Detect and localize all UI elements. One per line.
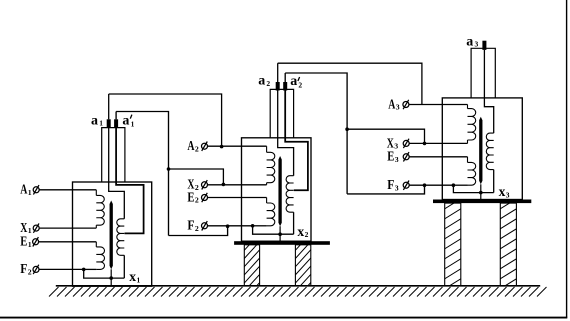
svg-text:x: x <box>129 269 136 284</box>
conductor a1 to HV winding <box>109 128 125 219</box>
bushing tube T1 <box>102 128 125 182</box>
svg-text:1: 1 <box>28 188 32 197</box>
primary winding T2 <box>266 146 268 152</box>
svg-text:F: F <box>187 218 194 233</box>
wire a1p to F2 node <box>169 226 228 236</box>
wire E3 to excitation T3 <box>409 156 467 158</box>
terminal X1 <box>33 225 39 231</box>
junction F2-node T2 <box>251 224 255 228</box>
wire F2 to node <box>39 268 83 270</box>
wire X2 to primary T2 <box>208 184 267 186</box>
svg-text:2: 2 <box>28 267 32 276</box>
wire F3 to node T3 <box>409 184 453 186</box>
junction x1 <box>109 276 113 280</box>
terminal F2 (unit2) <box>202 223 208 229</box>
wire HV bottom to x1 bus <box>123 255 125 278</box>
transformer T1 tank <box>73 182 152 286</box>
HV winding T2 <box>286 176 293 213</box>
junction X2 feed <box>222 183 226 187</box>
junction x2 <box>278 232 282 236</box>
wire A2 to primary T2 <box>208 145 267 147</box>
svg-text:x: x <box>297 224 304 239</box>
svg-text:2: 2 <box>298 80 302 89</box>
svg-text:a: a <box>91 113 98 128</box>
svg-text:3: 3 <box>475 40 479 49</box>
svg-text:a: a <box>122 113 129 128</box>
wire a2p to F3 node <box>347 185 424 194</box>
svg-text:a: a <box>258 74 265 89</box>
svg-text:2: 2 <box>305 230 309 239</box>
bushing tube T2 <box>270 89 293 137</box>
wire a1p right run <box>116 112 168 236</box>
conductor a1p to tap <box>116 128 144 234</box>
terminal E2 <box>202 195 208 201</box>
svg-text:F: F <box>20 261 27 276</box>
wire branch to X2 <box>169 169 224 185</box>
svg-text:3: 3 <box>395 183 399 192</box>
svg-text:2: 2 <box>195 196 199 205</box>
svg-text:E: E <box>387 149 394 164</box>
wire F2 to node T2 <box>208 225 253 227</box>
svg-text:a: a <box>466 35 473 50</box>
svg-text:1: 1 <box>28 240 32 249</box>
svg-text:E: E <box>187 189 194 204</box>
svg-text:F: F <box>387 177 394 192</box>
svg-text:2: 2 <box>195 144 199 153</box>
svg-text:3: 3 <box>395 155 399 164</box>
HV winding T3 <box>486 133 493 170</box>
terminal A1 <box>33 187 39 193</box>
svg-text:A: A <box>20 182 27 197</box>
insulator column T3 right <box>500 203 516 286</box>
wire X3 to primary T3 <box>409 142 467 144</box>
junction F3-node T3 <box>452 183 456 187</box>
primary winding T1 <box>95 190 97 196</box>
svg-text:a: a <box>290 74 297 89</box>
conductor a2p to tap <box>285 91 308 191</box>
junction F2-node T1 <box>82 268 86 272</box>
wire branch to X3 <box>347 129 424 143</box>
svg-text:3: 3 <box>394 142 398 151</box>
wire a2 up <box>277 63 279 82</box>
primary winding T3 <box>467 105 469 109</box>
svg-text:E: E <box>20 234 27 249</box>
platform T2 <box>234 241 330 245</box>
insulator column T2 left <box>244 245 259 286</box>
core T2 <box>278 156 281 226</box>
svg-text:A: A <box>187 138 194 153</box>
wire F2 node down to x1 bus <box>84 269 125 278</box>
svg-text:1: 1 <box>28 226 32 235</box>
wire coil bottom to F2 node <box>84 268 97 270</box>
terminal F2 (unit1) <box>33 266 39 272</box>
wire F2 node down to x2 bus <box>253 226 294 234</box>
svg-text:x: x <box>499 184 506 199</box>
junction a2p branch <box>345 127 349 131</box>
wire HV bottom to x2 bus <box>293 212 295 234</box>
conductor a3 to HV winding <box>484 50 493 133</box>
wire coil bottom to F3 node <box>453 184 467 186</box>
bushing terminal a3 <box>482 41 486 50</box>
svg-text:3: 3 <box>506 191 510 200</box>
wire a1 to A2 (top run) <box>109 94 222 146</box>
terminal E1 <box>33 239 39 245</box>
wire A1 to primary <box>39 189 96 191</box>
wire a1p up <box>115 112 117 120</box>
platform T3 <box>433 200 531 204</box>
junction a1p branch <box>167 167 171 171</box>
transformer T3 tank <box>442 98 522 200</box>
bushing terminal a2 <box>276 82 280 91</box>
wire a2p up <box>284 73 286 82</box>
wire E1 to excitation coil <box>39 241 97 243</box>
junction x3 <box>479 191 483 195</box>
wire X1 to primary <box>39 227 96 229</box>
svg-text:1: 1 <box>131 119 135 128</box>
wire HV bottom to x3 bus <box>493 170 495 193</box>
wire a2 to A3 (top run) <box>278 63 422 104</box>
wire coil bottom to F2 node T2 <box>253 225 267 227</box>
HV winding T1 <box>117 219 125 256</box>
ground hatching <box>49 287 547 297</box>
insulator column T2 right <box>295 245 310 286</box>
svg-text:1: 1 <box>137 276 141 285</box>
terminal F3 <box>403 182 409 188</box>
ground <box>56 285 540 287</box>
terminal X3 <box>403 140 409 146</box>
transformer T2 tank <box>242 138 312 241</box>
terminal E3 <box>403 154 409 160</box>
core T3 <box>479 117 482 185</box>
wire a2p right run <box>285 73 347 194</box>
core T1 <box>110 201 113 270</box>
wire a1 up <box>108 94 110 119</box>
junction X3 feed <box>423 142 427 146</box>
wire E2 to excitation T2 <box>208 197 267 199</box>
terminal A3 <box>403 102 409 108</box>
svg-text:2: 2 <box>195 183 199 192</box>
bushing terminal a1p <box>114 119 118 128</box>
conductor a2 to HV winding <box>278 91 294 176</box>
wire F3 node down to x3 bus <box>453 185 493 192</box>
junction F3 feed <box>423 183 427 187</box>
svg-text:2: 2 <box>266 79 270 88</box>
bushing terminal a2p <box>283 82 287 91</box>
excitation winding T2 <box>266 198 268 204</box>
wire A3 to primary T3 <box>409 104 467 106</box>
svg-text:1: 1 <box>99 119 103 128</box>
svg-text:3: 3 <box>396 103 400 112</box>
bushing terminal a1 <box>107 119 111 128</box>
junction A2 feed <box>220 145 224 149</box>
excitation winding T3 <box>467 157 469 163</box>
svg-text:A: A <box>388 96 395 111</box>
junction F2 feed <box>226 224 230 228</box>
svg-text:2: 2 <box>195 224 199 233</box>
bushing tube T3 <box>471 48 495 98</box>
excitation winding T1 <box>95 242 97 247</box>
terminal X2 <box>202 182 208 188</box>
insulator column T3 left <box>445 203 461 286</box>
terminal A2 <box>202 143 208 149</box>
